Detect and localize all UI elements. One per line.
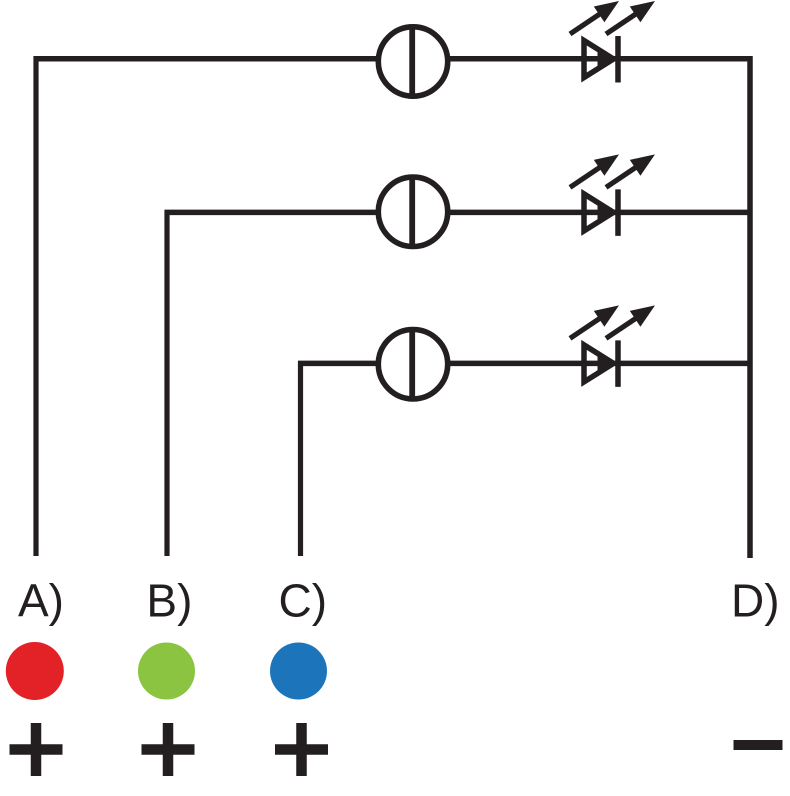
LED D3 [570,305,655,387]
wire: row 2 horizontal (B to right bus) [165,210,751,216]
current source I2 [378,175,447,249]
terminal C plus sign [275,723,328,776]
current source I1 [378,25,447,99]
node A label [18,575,64,627]
wire: terminal C vertical [298,361,303,556]
node B label [146,575,192,627]
wire: row 3 horizontal (C to right bus) [298,361,750,367]
node D label [731,575,780,627]
svg-text:D): D) [731,575,780,627]
terminal A plus sign [10,723,63,776]
wire: terminal A vertical [33,56,38,556]
terminal D minus sign [734,740,783,750]
wire: terminal B vertical [164,210,169,556]
LED D1 [570,1,655,83]
svg-text:B): B) [146,575,192,627]
wire: right bus vertical to terminal D [747,56,753,558]
node C label [279,575,328,627]
terminal A red dot [6,642,64,700]
LED D2 [570,154,655,236]
svg-text:C): C) [279,575,328,627]
current source I3 [378,327,447,401]
wire: top horizontal row 1 (A to D corner) [34,56,751,62]
terminal C blue dot [270,643,327,700]
svg-text:A): A) [18,575,64,627]
terminal B green dot [138,643,195,700]
terminal B plus sign [142,723,195,776]
